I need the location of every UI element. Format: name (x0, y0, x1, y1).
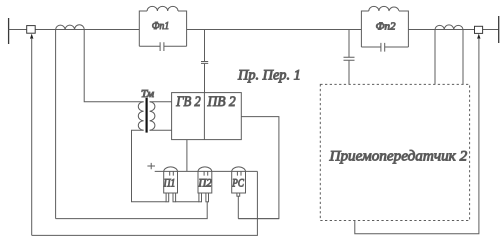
capacitor C1 in tap (201, 62, 208, 64)
antenna right (498, 16, 500, 43)
svg-text:П2: П2 (197, 178, 212, 190)
transformer primary winding (138, 102, 143, 131)
wire L2 right terminal down (462, 30, 464, 85)
tube П2 (198, 167, 212, 193)
inductor L2 (right coil on rail) (435, 25, 463, 30)
wire bottom left (32, 171, 258, 235)
capacitor on Фп2 bottom edge (381, 43, 385, 52)
wire secondary bottom (150, 129, 172, 131)
wire top rail right (408, 29, 498, 31)
wire top rail left (9, 29, 140, 31)
transformer secondary winding (150, 102, 155, 131)
transformer core (146, 98, 148, 133)
wire right feeder down (355, 38, 479, 234)
wire РС to right riser (238, 218, 279, 220)
dashed box Приемопередатчик 2 (320, 84, 469, 220)
wire block output right (238, 117, 279, 219)
svg-text:Фп1: Фп1 (152, 20, 170, 32)
wire РС pin down (237, 196, 239, 218)
arrow into right square (477, 34, 480, 39)
capacitor C2 in right tap (344, 57, 355, 60)
arrow into left square (30, 34, 33, 39)
block ГВ2/ПВ2 (172, 93, 242, 140)
wire tap down right (to transceiver) (348, 30, 350, 85)
wire П1 to П2 pins (176, 201, 199, 203)
inductor L1 (left coil on rail) (56, 25, 85, 30)
wire П2 right pin down (56, 202, 208, 219)
inductor on Фп2 top edge (369, 6, 399, 11)
coupling box XS1 (left square) (27, 26, 36, 34)
coupling box XS2 (right square) (475, 26, 483, 33)
wire left feeder down (31, 38, 33, 235)
svg-text:Фп2: Фп2 (376, 21, 396, 33)
inductor on Фп1 top edge (147, 6, 178, 11)
svg-text:Тм: Тм (141, 89, 155, 100)
filter Фп1 box (139, 11, 186, 46)
wire secondary top (150, 101, 172, 103)
svg-text:Приемопередатчик 2: Приемопередатчик 2 (329, 147, 468, 164)
svg-text:Пр. Пер. 1: Пр. Пер. 1 (237, 67, 301, 83)
wire top rail middle (187, 29, 362, 31)
wire tap down to ГВ2/ПВ2 (204, 30, 206, 93)
svg-text:П1: П1 (163, 178, 175, 190)
wire primary bottom to П1 (132, 130, 167, 202)
capacitor on Фп1 bottom edge (160, 42, 164, 51)
wire L2 left terminal down (434, 30, 436, 85)
label plus (147, 163, 155, 169)
svg-text:ГВ 2: ГВ 2 (175, 94, 200, 110)
antenna left (8, 18, 10, 44)
filter Фп2 box (361, 11, 408, 47)
svg-text:РС: РС (231, 178, 244, 190)
divider (203, 93, 205, 140)
wire L1 left terminal down (55, 30, 57, 219)
tube П1 (164, 167, 178, 193)
wire tube bus (155, 170, 258, 172)
svg-text:ПВ 2: ПВ 2 (207, 94, 236, 110)
wire L1 right terminal down (84, 30, 143, 102)
wire block bottom to tube bus (186, 140, 188, 172)
tube РС (232, 167, 246, 193)
